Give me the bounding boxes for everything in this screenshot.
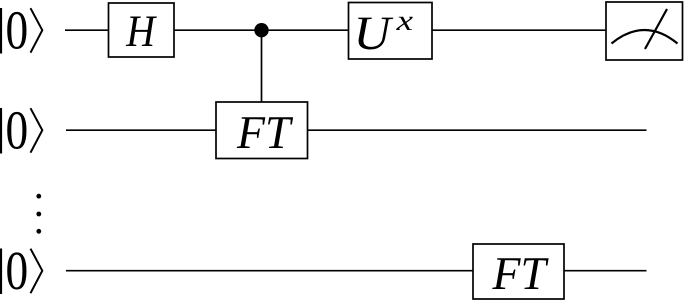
svg-text:0: 0	[6, 100, 29, 161]
gate U^x	[349, 3, 433, 61]
wire q2 segment a	[66, 129, 217, 131]
wire q3 segment a	[66, 270, 474, 272]
gate H	[109, 3, 175, 57]
svg-text:FT: FT	[236, 107, 293, 159]
wire q3 segment b	[564, 270, 647, 272]
ket |0> qubit 1 label	[1, 0, 42, 61]
control dot	[254, 23, 268, 37]
wire q2 segment b	[308, 129, 647, 131]
wire q1 segment a	[65, 29, 109, 31]
svg-text:x: x	[395, 5, 413, 37]
svg-text:0: 0	[6, 0, 29, 61]
gate FT (qubit n)	[473, 244, 564, 300]
vertical control wire	[261, 30, 263, 102]
svg-text:U: U	[354, 7, 395, 60]
ket |0> qubit n label	[1, 240, 42, 300]
measurement meter	[606, 2, 683, 60]
svg-text:FT: FT	[492, 248, 549, 300]
wire q1 segment c	[432, 29, 607, 31]
svg-text:H: H	[125, 6, 157, 56]
wire q1 segment b	[174, 29, 349, 31]
vertical ellipsis dots	[36, 194, 41, 234]
svg-text:0: 0	[6, 240, 29, 300]
ket |0> qubit 2 label	[1, 100, 42, 161]
gate FT (qubit 2)	[216, 102, 308, 159]
